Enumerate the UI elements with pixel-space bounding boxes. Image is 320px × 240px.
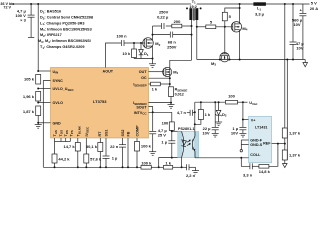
node output 5V 20A <box>310 1 318 11</box>
svg-text:OUT: OUT <box>139 70 148 74</box>
ground FB chain end <box>192 167 199 174</box>
svg-text:100 k: 100 k <box>141 160 152 165</box>
capacitor 0,22u 250V clamp <box>157 9 169 29</box>
wire GND-F GND-S <box>241 140 248 150</box>
capacitor 100n gate drive <box>116 34 127 46</box>
wire secondary gnd sense <box>286 60 288 161</box>
wire SOUT stub <box>149 107 153 113</box>
svg-text:5 V: 5 V <box>311 1 317 6</box>
svg-text:100 k: 100 k <box>141 144 152 149</box>
transistor M4 forward sync fet <box>231 3 248 60</box>
svg-text:GND-F: GND-F <box>250 138 262 142</box>
ground M2 source <box>149 64 156 68</box>
svg-text:1 µ: 1 µ <box>112 155 118 160</box>
wire OC <box>149 77 171 79</box>
svg-text:1,87 k: 1,87 k <box>23 109 35 114</box>
wire TAS TOS TBLNK jog <box>55 138 71 154</box>
svg-text:44,2 k: 44,2 k <box>58 156 70 161</box>
capacitor 3,3n comp <box>241 158 252 178</box>
svg-text:D2: D2 <box>222 112 227 118</box>
svg-text:1 k: 1 k <box>205 112 211 117</box>
wire snubber <box>152 34 192 36</box>
resistor 14,7k <box>63 138 80 167</box>
resistor 200 <box>172 19 182 28</box>
IC pin labels right <box>103 69 148 115</box>
svg-text:100: 100 <box>228 94 235 99</box>
svg-text:M4: M4 <box>242 26 247 32</box>
svg-text:UOut: UOut <box>249 100 257 106</box>
resistor 100k FB chain <box>141 160 163 169</box>
resistor 14,8k comp <box>252 144 278 174</box>
svg-text:250V: 250V <box>167 45 177 50</box>
svg-text:19:2: 19:2 <box>189 5 196 9</box>
svg-text:10V: 10V <box>293 22 300 27</box>
svg-text:TAS: TAS <box>53 130 58 136</box>
resistor 1,37k lower <box>282 150 301 164</box>
resistor RSENSE 0,012 <box>169 87 188 103</box>
capacitor 47u 10V <box>290 3 305 60</box>
svg-text:14,7 k: 14,7 k <box>63 144 75 149</box>
svg-text:1,37 k: 1,37 k <box>289 153 301 158</box>
wire secondary winding bottom <box>196 20 198 60</box>
wire AOUT riser <box>106 43 122 68</box>
transistor M3 catch fet rotated <box>211 27 231 67</box>
wire REF <box>272 143 286 145</box>
resistor 5 gate M4 <box>197 19 233 28</box>
svg-text:3,3 µ: 3,3 µ <box>255 11 265 16</box>
wire GND pin stub <box>37 116 50 124</box>
capacitor C-in 4,7u 100V x3 <box>15 3 34 37</box>
svg-text:OVLO: OVLO <box>53 101 64 105</box>
resistor 1k opto <box>195 102 211 124</box>
resistor 1,87k <box>23 106 41 116</box>
resistor 100k COMP <box>135 138 152 167</box>
svg-text:COMP: COMP <box>136 125 140 137</box>
resistor 100 UOUT <box>226 94 238 105</box>
ground bus end triangle <box>303 60 308 67</box>
wire opto emitter to FB chain <box>181 158 183 169</box>
capacitor 1u SS1 <box>103 138 119 167</box>
svg-text:TOS: TOS <box>59 130 64 137</box>
IC pin labels bottom rotated <box>53 125 139 137</box>
svg-text:105 k: 105 k <box>24 76 35 81</box>
wire UVLO tap <box>37 88 50 90</box>
svg-text:10V: 10V <box>231 131 238 136</box>
wire clamp top <box>153 25 192 27</box>
resistor 105k <box>24 70 51 84</box>
svg-text:ISENSEP: ISENSEP <box>133 83 146 88</box>
ground divider <box>35 123 42 128</box>
legend parts list <box>38 10 93 50</box>
wire gate node M2 <box>124 42 145 44</box>
wire SYNC to ground bus <box>43 81 50 168</box>
ground divider 1,37k triangle <box>283 164 288 168</box>
wire VOUT sense <box>284 3 286 128</box>
wire opto collector feed <box>172 130 182 132</box>
wire 10k/D1 return to M2 source <box>134 58 154 60</box>
wire switch node primary <box>170 20 193 68</box>
svg-text:M3: M3 <box>211 61 216 67</box>
svg-text:2,2 n: 2,2 n <box>186 173 196 178</box>
svg-text:TDS: TDS <box>64 130 69 136</box>
wire input bus <box>12 3 191 5</box>
svg-text:M1: M1 <box>173 69 178 75</box>
svg-text:INTVCC: INTVCC <box>134 111 148 116</box>
svg-text:20 A: 20 A <box>310 6 318 11</box>
svg-text:200: 200 <box>174 19 181 24</box>
wire bottom ground bus <box>43 166 141 168</box>
svg-text:1 k: 1 k <box>152 86 158 91</box>
svg-text:SYNC: SYNC <box>53 79 64 83</box>
resistor 1,96k <box>23 92 41 102</box>
diode D1 <box>139 43 149 59</box>
svg-text:SS1: SS1 <box>105 130 109 137</box>
capacitor 1u 10V <box>231 120 247 136</box>
svg-text:1 µ: 1 µ <box>161 140 167 145</box>
resistor 1k ISENSEP <box>149 82 171 91</box>
svg-text:GND: GND <box>53 121 62 125</box>
svg-text:REF: REF <box>263 141 271 145</box>
svg-text:22 n: 22 n <box>110 144 119 149</box>
svg-text:1 k: 1 k <box>165 160 171 165</box>
svg-text:× 3: × 3 <box>20 18 26 23</box>
resistor 10k <box>122 43 136 59</box>
ground 22u <box>212 133 219 137</box>
resistor 5 pullup <box>222 8 239 27</box>
svg-text:1,37 k: 1,37 k <box>289 131 301 136</box>
resistor 100 INTVCC <box>162 112 175 140</box>
svg-text:OC: OC <box>141 76 147 80</box>
wire opto anode riser <box>194 102 196 131</box>
ground 4,7u <box>149 152 156 156</box>
svg-text:TPS: TPS <box>69 130 74 136</box>
capacitor 4,7u 25V INTVCC <box>149 112 167 151</box>
svg-text:IVSEC: IVSEC <box>85 126 90 136</box>
wire opto emitter branch <box>158 157 182 169</box>
transformer T1 19:2 <box>186 0 202 21</box>
svg-text:0,22 µ: 0,22 µ <box>157 14 169 19</box>
capacitor 68n 250V snubber <box>167 32 177 50</box>
optocoupler PS2801-1 <box>178 127 199 157</box>
resistor 1k FB chain <box>163 160 186 169</box>
svg-text:SOUT: SOUT <box>136 105 147 109</box>
svg-text:M2: M2 <box>155 41 160 47</box>
svg-text:LT1431: LT1431 <box>255 126 267 130</box>
svg-text:FB: FB <box>127 131 131 136</box>
resistor 1,37k upper <box>282 128 301 150</box>
wire COLL to opto cathode <box>195 157 249 159</box>
svg-text:AOUT: AOUT <box>103 69 114 73</box>
wire OVLO tap <box>37 102 50 104</box>
svg-text:10V: 10V <box>202 131 209 136</box>
node VIN input label 36V bis 72V <box>0 2 14 10</box>
svg-text:TBLNK: TBLNK <box>77 125 82 136</box>
wire FB drop <box>127 138 129 167</box>
wire V+ feed LT1431 <box>242 102 249 120</box>
ground 1u <box>239 133 246 137</box>
capacitor 1u opto filter <box>161 140 175 158</box>
ground D2 <box>215 122 222 126</box>
capacitor 2,2n <box>186 164 196 178</box>
svg-text:RT: RT <box>98 131 102 137</box>
wire secondary return bus <box>197 59 305 61</box>
wire ISENSEN <box>149 102 173 105</box>
svg-text:V+: V+ <box>251 118 256 122</box>
svg-text:30,1 k: 30,1 k <box>86 144 98 149</box>
inductor L1 3,3u <box>253 2 266 16</box>
svg-text:GND-S: GND-S <box>250 143 262 147</box>
svg-text:LT3753: LT3753 <box>93 99 107 104</box>
svg-text:COLL: COLL <box>250 153 261 157</box>
IC pin labels left <box>53 70 75 126</box>
svg-text:100 n: 100 n <box>116 34 127 39</box>
IC U2 LT1431 block <box>249 116 272 162</box>
zener diode D2 <box>216 102 227 122</box>
svg-text:10 k: 10 k <box>122 51 131 56</box>
capacitor 22n SS2 <box>110 138 126 167</box>
wire secondary top rail <box>197 3 310 5</box>
capacitor 22u 10V <box>202 102 218 135</box>
transistor M2 IRF6217 p-channel clamp <box>143 26 161 64</box>
svg-text:14,8 k: 14,8 k <box>259 169 271 174</box>
svg-text:UVLO_USEC: UVLO_USEC <box>53 87 75 92</box>
svg-text:4,7 n: 4,7 n <box>177 110 187 115</box>
svg-text:1,96 k: 1,96 k <box>23 94 35 99</box>
resistor 57,6k <box>84 138 102 167</box>
IC U1 LT3753 block <box>51 68 149 139</box>
wire VIN feed <box>37 3 39 71</box>
svg-text:25 V: 25 V <box>158 133 167 138</box>
svg-text:D1: D1 <box>144 51 149 57</box>
svg-text:SS2: SS2 <box>121 130 125 137</box>
svg-text:PS2801-1: PS2801-1 <box>178 127 194 131</box>
wire UOUT rail <box>195 101 248 103</box>
svg-text:100: 100 <box>162 121 169 126</box>
wire OUT to M1 gate <box>149 71 164 73</box>
ground RSENSE <box>168 105 175 109</box>
wire INTVCC rail <box>149 111 172 113</box>
svg-text:0,012: 0,012 <box>175 93 184 97</box>
svg-text:72 V: 72 V <box>3 6 11 10</box>
svg-text:UIN: UIN <box>53 70 59 75</box>
svg-text:3,3 n: 3,3 n <box>243 173 253 178</box>
resistor 44,2k <box>52 154 70 167</box>
transistor M1 main switch <box>163 67 179 86</box>
resistor 30,1k <box>86 138 103 167</box>
ground terminal circle GND-S <box>240 150 242 152</box>
capacitor 4,7n <box>177 110 195 116</box>
capacitor 560u 10V electrolytic <box>292 4 306 60</box>
